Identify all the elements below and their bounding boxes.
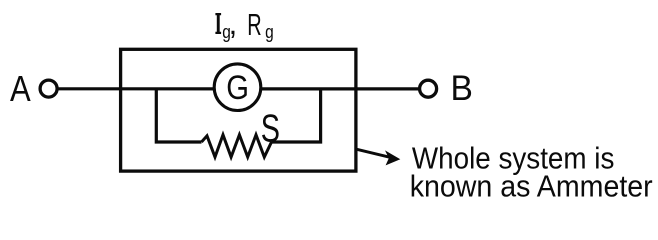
svg-text:g: g: [265, 21, 274, 42]
annotation: Whole system is known as Ammeter: [410, 142, 653, 204]
wire A to B: [57, 87, 420, 90]
svg-text:,: ,: [229, 6, 238, 41]
svg-text:G: G: [226, 69, 249, 107]
terminal A: [40, 80, 57, 97]
svg-text:known as Ammeter: known as Ammeter: [410, 169, 653, 203]
svg-text:B: B: [451, 69, 473, 108]
arrow to annotation: [357, 149, 401, 165]
label Ig, Rg: [215, 6, 273, 42]
terminal B: [420, 80, 437, 97]
svg-text:S: S: [261, 107, 280, 150]
wire shunt branch left: [156, 89, 201, 142]
galvanometer G: [214, 64, 261, 111]
resistor S (shunt): [202, 135, 272, 157]
wire shunt branch right: [272, 89, 321, 142]
svg-text:R: R: [247, 7, 261, 42]
outer box (ammeter boundary): [121, 49, 356, 171]
svg-text:A: A: [10, 68, 31, 109]
